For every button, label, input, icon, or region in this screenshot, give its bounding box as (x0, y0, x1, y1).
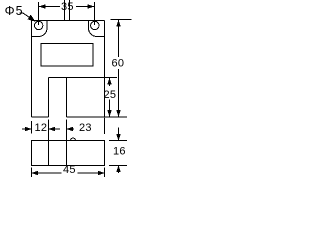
wire ext 45 right (104, 168, 106, 178)
wire stud left line (64, 0, 66, 21)
arrow 60 bottom (116, 110, 121, 117)
wire dim line 60 top (118, 20, 120, 58)
arrow 45 right (98, 171, 105, 176)
wire ext 23 right (104, 118, 106, 135)
wire ext 23 left (66, 120, 68, 141)
node window (41, 44, 93, 67)
wire dim tail 12 right (49, 128, 61, 130)
wire slot right (66, 78, 68, 118)
wire dim line 60 bottom (118, 69, 120, 117)
wire dim tail 12 left (22, 128, 32, 130)
arrow 16 top (116, 134, 121, 141)
wire dim line 16 top (118, 128, 120, 141)
wire ext 45 left (31, 168, 33, 178)
arrow 25 bottom (107, 110, 112, 117)
wire bottom right leg (67, 116, 105, 118)
svg-text:45: 45 (63, 164, 76, 176)
wire slot left (48, 78, 50, 118)
wire divider1 (48, 141, 50, 166)
arrow 12 right (49, 127, 56, 132)
wire stud right line (69, 0, 71, 21)
wire dim tail 23 (67, 128, 75, 130)
wire ext 35 left (38, 2, 40, 25)
arrow 23 left (67, 127, 74, 132)
pad right fillet (89, 21, 105, 37)
bump on bottom view top edge (71, 138, 76, 140)
wire dim line 25 top (109, 78, 111, 87)
wire dim line 45 left (32, 172, 62, 174)
arrow 12 left (25, 127, 32, 132)
wire dim line 45 right (78, 172, 105, 174)
leader line phi5 (19, 13, 31, 18)
wire bottom left leg (32, 116, 49, 118)
arrow 60 top (116, 20, 121, 27)
wire ext 60 bottom (105, 116, 127, 118)
wire ext 12 right (48, 120, 50, 141)
node bottom view rect (32, 141, 105, 166)
wire dim line 35 right (76, 6, 95, 8)
hole right (91, 21, 99, 29)
wire right edge (104, 21, 106, 118)
wire step edge (49, 77, 118, 79)
arrow 35 right (88, 4, 95, 9)
arrow 16 bottom (116, 166, 121, 173)
wire ext 12 left (31, 121, 33, 134)
wire dim line 16 bottom (118, 166, 120, 174)
wire dim line 35 left (39, 6, 61, 8)
hole left (35, 21, 43, 29)
wire left edge (31, 21, 33, 118)
svg-text:60: 60 (112, 58, 125, 70)
arrow 35 left (39, 4, 46, 9)
wire dim line 25 bottom (109, 100, 111, 118)
node top edge (32, 20, 105, 22)
pad left fillet (32, 21, 48, 37)
wire ext 35 right (94, 2, 96, 25)
wire divider2 (66, 141, 68, 166)
svg-text:35: 35 (61, 1, 74, 13)
wire ext 16 bottom (109, 165, 127, 167)
svg-text:12: 12 (35, 122, 48, 134)
wire ext 16 top (109, 140, 127, 142)
arrow leader phi5 (28, 15, 36, 22)
arrow 25 top (107, 78, 112, 85)
svg-text:23: 23 (79, 122, 92, 134)
svg-text:Φ5: Φ5 (5, 4, 24, 18)
wire ext 60 top (111, 19, 132, 21)
svg-text:25: 25 (104, 89, 117, 101)
arrow 45 left (32, 171, 39, 176)
svg-text:16: 16 (113, 145, 126, 157)
